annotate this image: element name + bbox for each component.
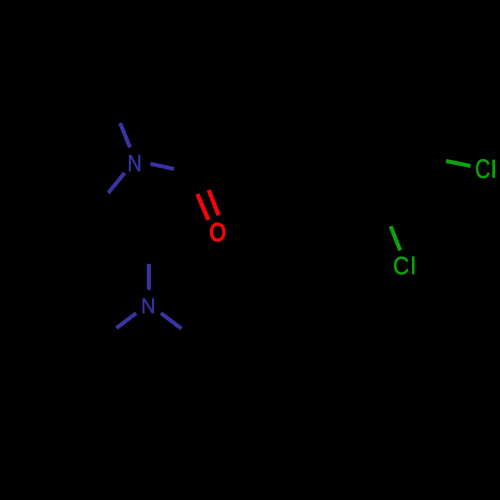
svg-text:N: N [127, 149, 141, 176]
svg-text:O: O [209, 219, 225, 247]
svg-text:C: C [475, 155, 490, 185]
svg-text:C: C [393, 252, 409, 281]
svg-text:N: N [141, 295, 156, 319]
